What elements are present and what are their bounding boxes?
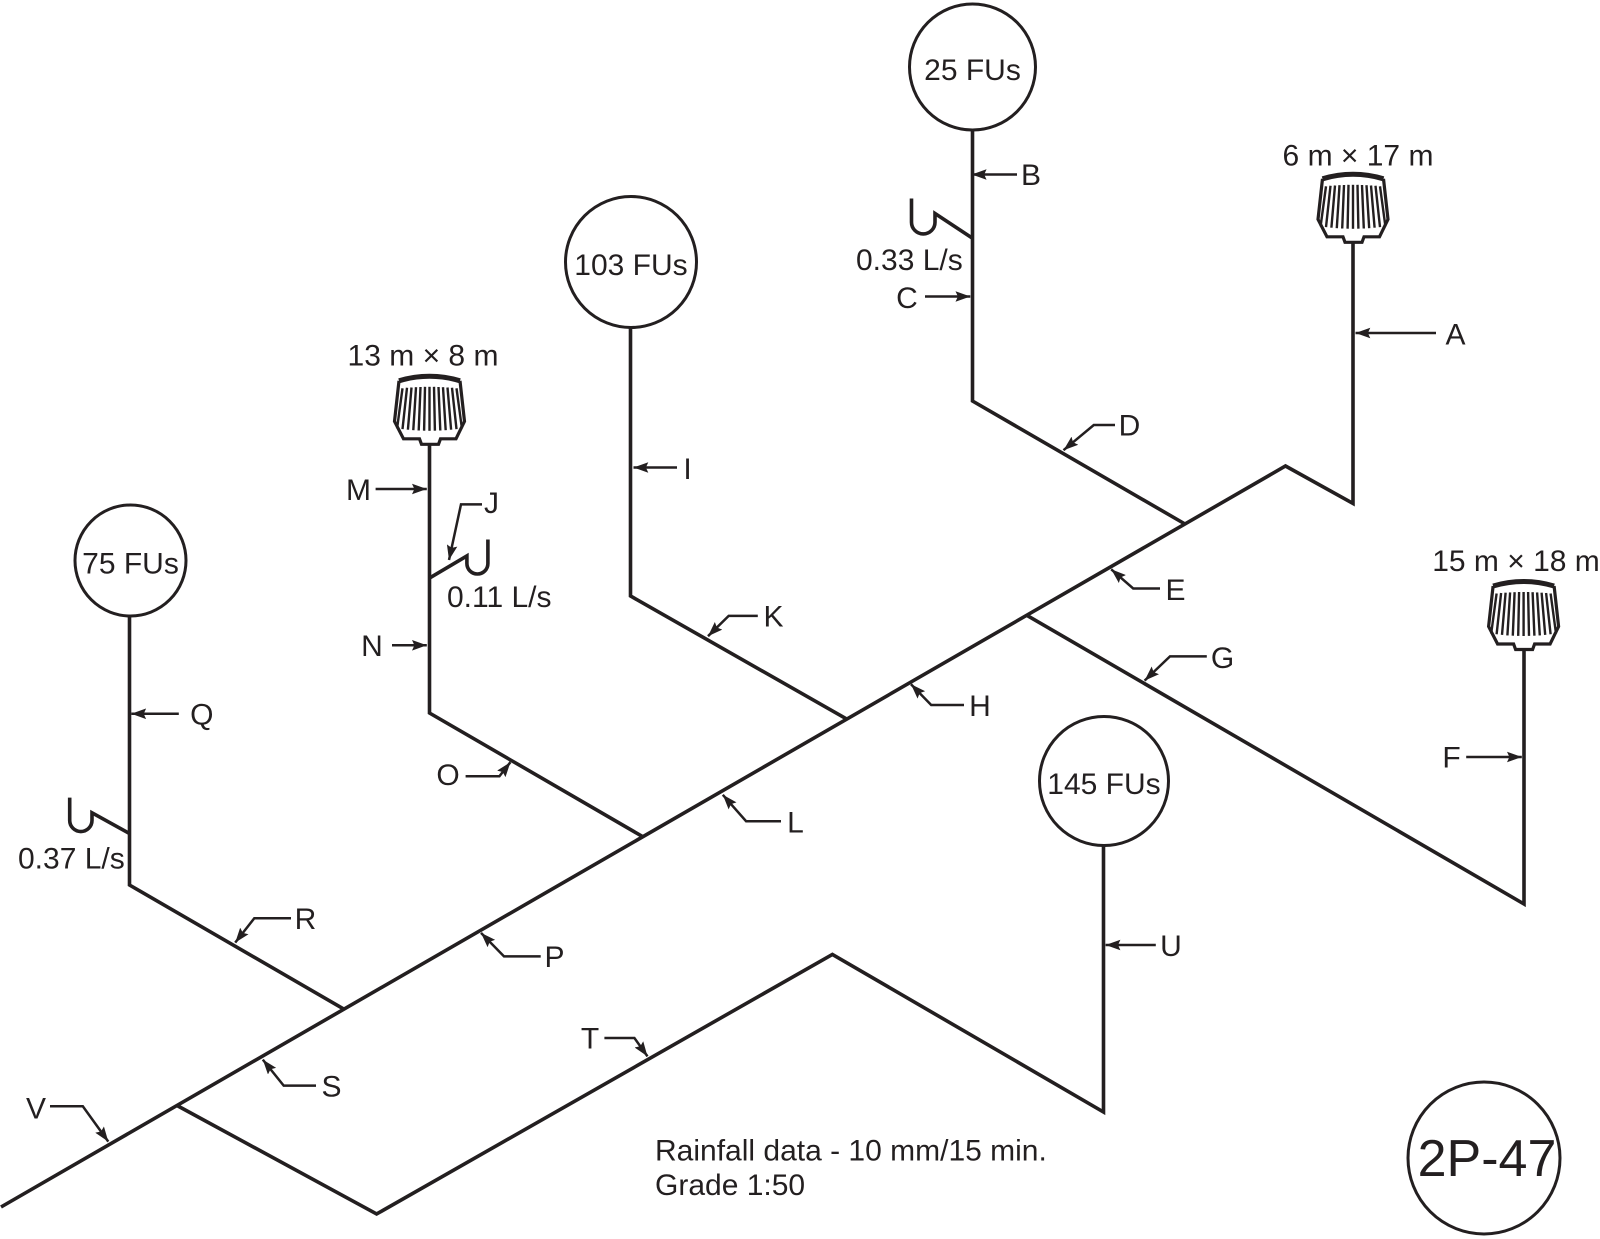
wire: branch M-N-O from 13m x 8m roof drain to collector [430,444,644,837]
svg-text:C: C [896,282,918,315]
roof drain 6 m x 17 m [1318,174,1388,242]
svg-text:0.37 L/s: 0.37 L/s [18,843,125,876]
vent with flow label 0.11 L/s [430,540,488,579]
label C with leader arrow [925,295,970,298]
svg-text:L: L [787,807,804,840]
svg-text:D: D [1119,410,1141,443]
wire: branch B-C-D from 25 FUs stack to collector [973,131,1186,525]
svg-text:75 FUs: 75 FUs [82,548,179,581]
roof drain 15 m x 18 m [1489,582,1559,650]
svg-text:M: M [346,474,371,507]
svg-text:0.11 L/s: 0.11 L/s [447,581,552,614]
svg-text:F: F [1442,742,1460,775]
label M with leader arrow [376,488,427,491]
svg-text:K: K [763,601,783,634]
svg-text:T: T [581,1023,599,1056]
label T with leader arrow [604,1038,647,1056]
svg-text:S: S [321,1071,341,1104]
label A with leader arrow [1356,332,1437,335]
label L with leader arrow [723,795,781,821]
label E with leader arrow [1111,569,1160,588]
svg-text:B: B [1021,159,1041,192]
label V with leader arrow [50,1106,108,1141]
svg-text:N: N [361,630,383,663]
svg-text:U: U [1160,930,1182,963]
svg-text:145 FUs: 145 FUs [1047,768,1160,801]
label Q with leader arrow [131,713,179,716]
label K with leader arrow [708,616,758,636]
svg-text:R: R [295,903,317,936]
svg-text:13 m × 8 m: 13 m × 8 m [348,340,499,373]
svg-text:103 FUs: 103 FUs [574,249,687,282]
svg-text:H: H [969,690,991,723]
svg-text:Q: Q [190,699,213,732]
label J with leader arrow [449,504,482,560]
label B with leader arrow [972,173,1017,176]
wire: main collector V-S-P-L-H-E with stack A riser [1,242,1353,1207]
label H with leader arrow [911,684,964,705]
label N with leader arrow [392,644,427,647]
svg-text:6 m × 17 m: 6 m × 17 m [1283,140,1434,173]
label I with leader arrow [634,466,678,469]
svg-text:A: A [1445,319,1465,352]
label S with leader arrow [263,1060,316,1086]
label R with leader arrow [235,918,291,942]
node: fixture-unit circle 145 FUs [1040,717,1169,846]
svg-text:O: O [436,759,459,792]
label O with leader arrow [466,762,511,776]
vent with flow label 0.37 L/s [70,798,130,834]
label F with leader arrow [1466,756,1522,759]
vent with flow label 0.33 L/s [912,199,973,239]
wire: branch G-F from collector to 15m x 18m roof drain [1027,615,1524,904]
svg-text:E: E [1165,574,1185,607]
wire: branch Q-R from 75 FUs stack to collector [130,616,345,1010]
wire: branch I-K from 103 FUs stack to collector [631,328,848,720]
svg-text:Rainfall data - 10 mm/15 min.: Rainfall data - 10 mm/15 min. [655,1135,1047,1168]
wire: branch T-U from collector to 145 FUs stack [177,846,1104,1215]
svg-text:2P-47: 2P-47 [1418,1130,1557,1188]
node: fixture-unit circle 25 FUs [910,4,1036,130]
node: drawing number circle 2P-47 [1408,1082,1560,1234]
svg-text:J: J [484,487,499,520]
label G with leader arrow [1145,656,1207,680]
roof drain 13 m x 8 m [395,376,465,444]
label U with leader arrow [1106,944,1156,947]
svg-text:P: P [544,941,564,974]
svg-text:25 FUs: 25 FUs [924,54,1021,87]
label P with leader arrow [481,933,541,957]
svg-text:V: V [26,1093,46,1126]
node: fixture-unit circle 103 FUs [566,197,697,328]
svg-text:Grade 1:50: Grade 1:50 [655,1169,805,1202]
label D with leader arrow [1064,425,1116,450]
svg-text:I: I [683,453,691,486]
svg-text:G: G [1211,642,1234,675]
svg-text:0.33 L/s: 0.33 L/s [856,244,963,277]
svg-text:15 m × 18 m: 15 m × 18 m [1432,545,1600,578]
node: fixture-unit circle 75 FUs [75,505,186,616]
